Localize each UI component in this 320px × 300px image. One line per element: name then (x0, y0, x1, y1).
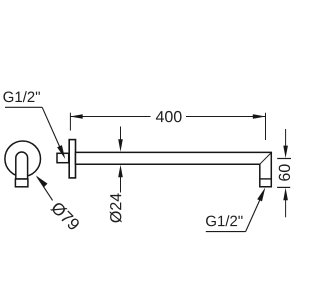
G1/2 bottom leader line (246, 200, 260, 232)
dim 400 text (156, 111, 182, 122)
bend miter line (260, 153, 272, 165)
dim 400 line right segment (186, 116, 266, 118)
dim 60 text (279, 164, 290, 180)
dim 400 left arrowhead (70, 114, 83, 119)
G1/2 top label text (3, 91, 39, 102)
G1/2 bottom leader arrowhead (257, 188, 265, 202)
dim 60 lower arrowhead (283, 188, 288, 201)
dia79 leader line (37, 177, 53, 201)
front view tube obround (16, 152, 28, 179)
dim 60 lower line (285, 200, 287, 217)
dia79 label (50, 201, 81, 232)
side view wall stub (57, 153, 69, 162)
dim dia24 upper line (120, 127, 122, 147)
G1/2 top leader arrowhead (57, 145, 65, 159)
dim dia24 lower arrowhead (118, 165, 123, 178)
dim 60 bottom extension line (277, 186, 290, 188)
dim 400 left extension line (69, 113, 71, 131)
front view end nut rectangle (15, 179, 28, 187)
dim dia24 text (110, 193, 122, 222)
G1/2 top label underline (5, 106, 42, 108)
dim 60 upper arrowhead (283, 146, 288, 159)
dim 400 right extension line (265, 113, 267, 140)
G1/2 top leader line (42, 107, 60, 147)
dim 400 right arrowhead (253, 114, 266, 119)
front view flange circle (5, 141, 41, 177)
dim 60 upper line (285, 129, 287, 146)
dim 60 top extension line (277, 158, 291, 160)
side view flange plate (69, 140, 75, 178)
dim dia24 upper arrowhead (118, 139, 123, 152)
dim dia24 lower line (120, 170, 122, 193)
dim 400 line left segment (70, 116, 151, 118)
side view arm tube outline (76, 152, 272, 186)
dia79 leader arrowhead (36, 176, 48, 188)
G1/2 bottom label underline (206, 231, 246, 233)
threaded end divider line (260, 178, 272, 180)
G1/2 bottom label text (206, 215, 242, 226)
